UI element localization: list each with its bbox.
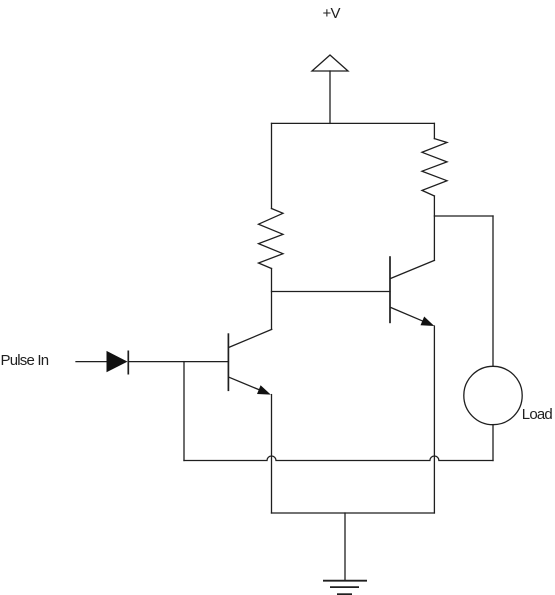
svg-text:Pulse In: Pulse In — [1, 352, 49, 369]
svg-text:Load: Load — [522, 406, 553, 423]
svg-text:+V: +V — [323, 5, 341, 22]
